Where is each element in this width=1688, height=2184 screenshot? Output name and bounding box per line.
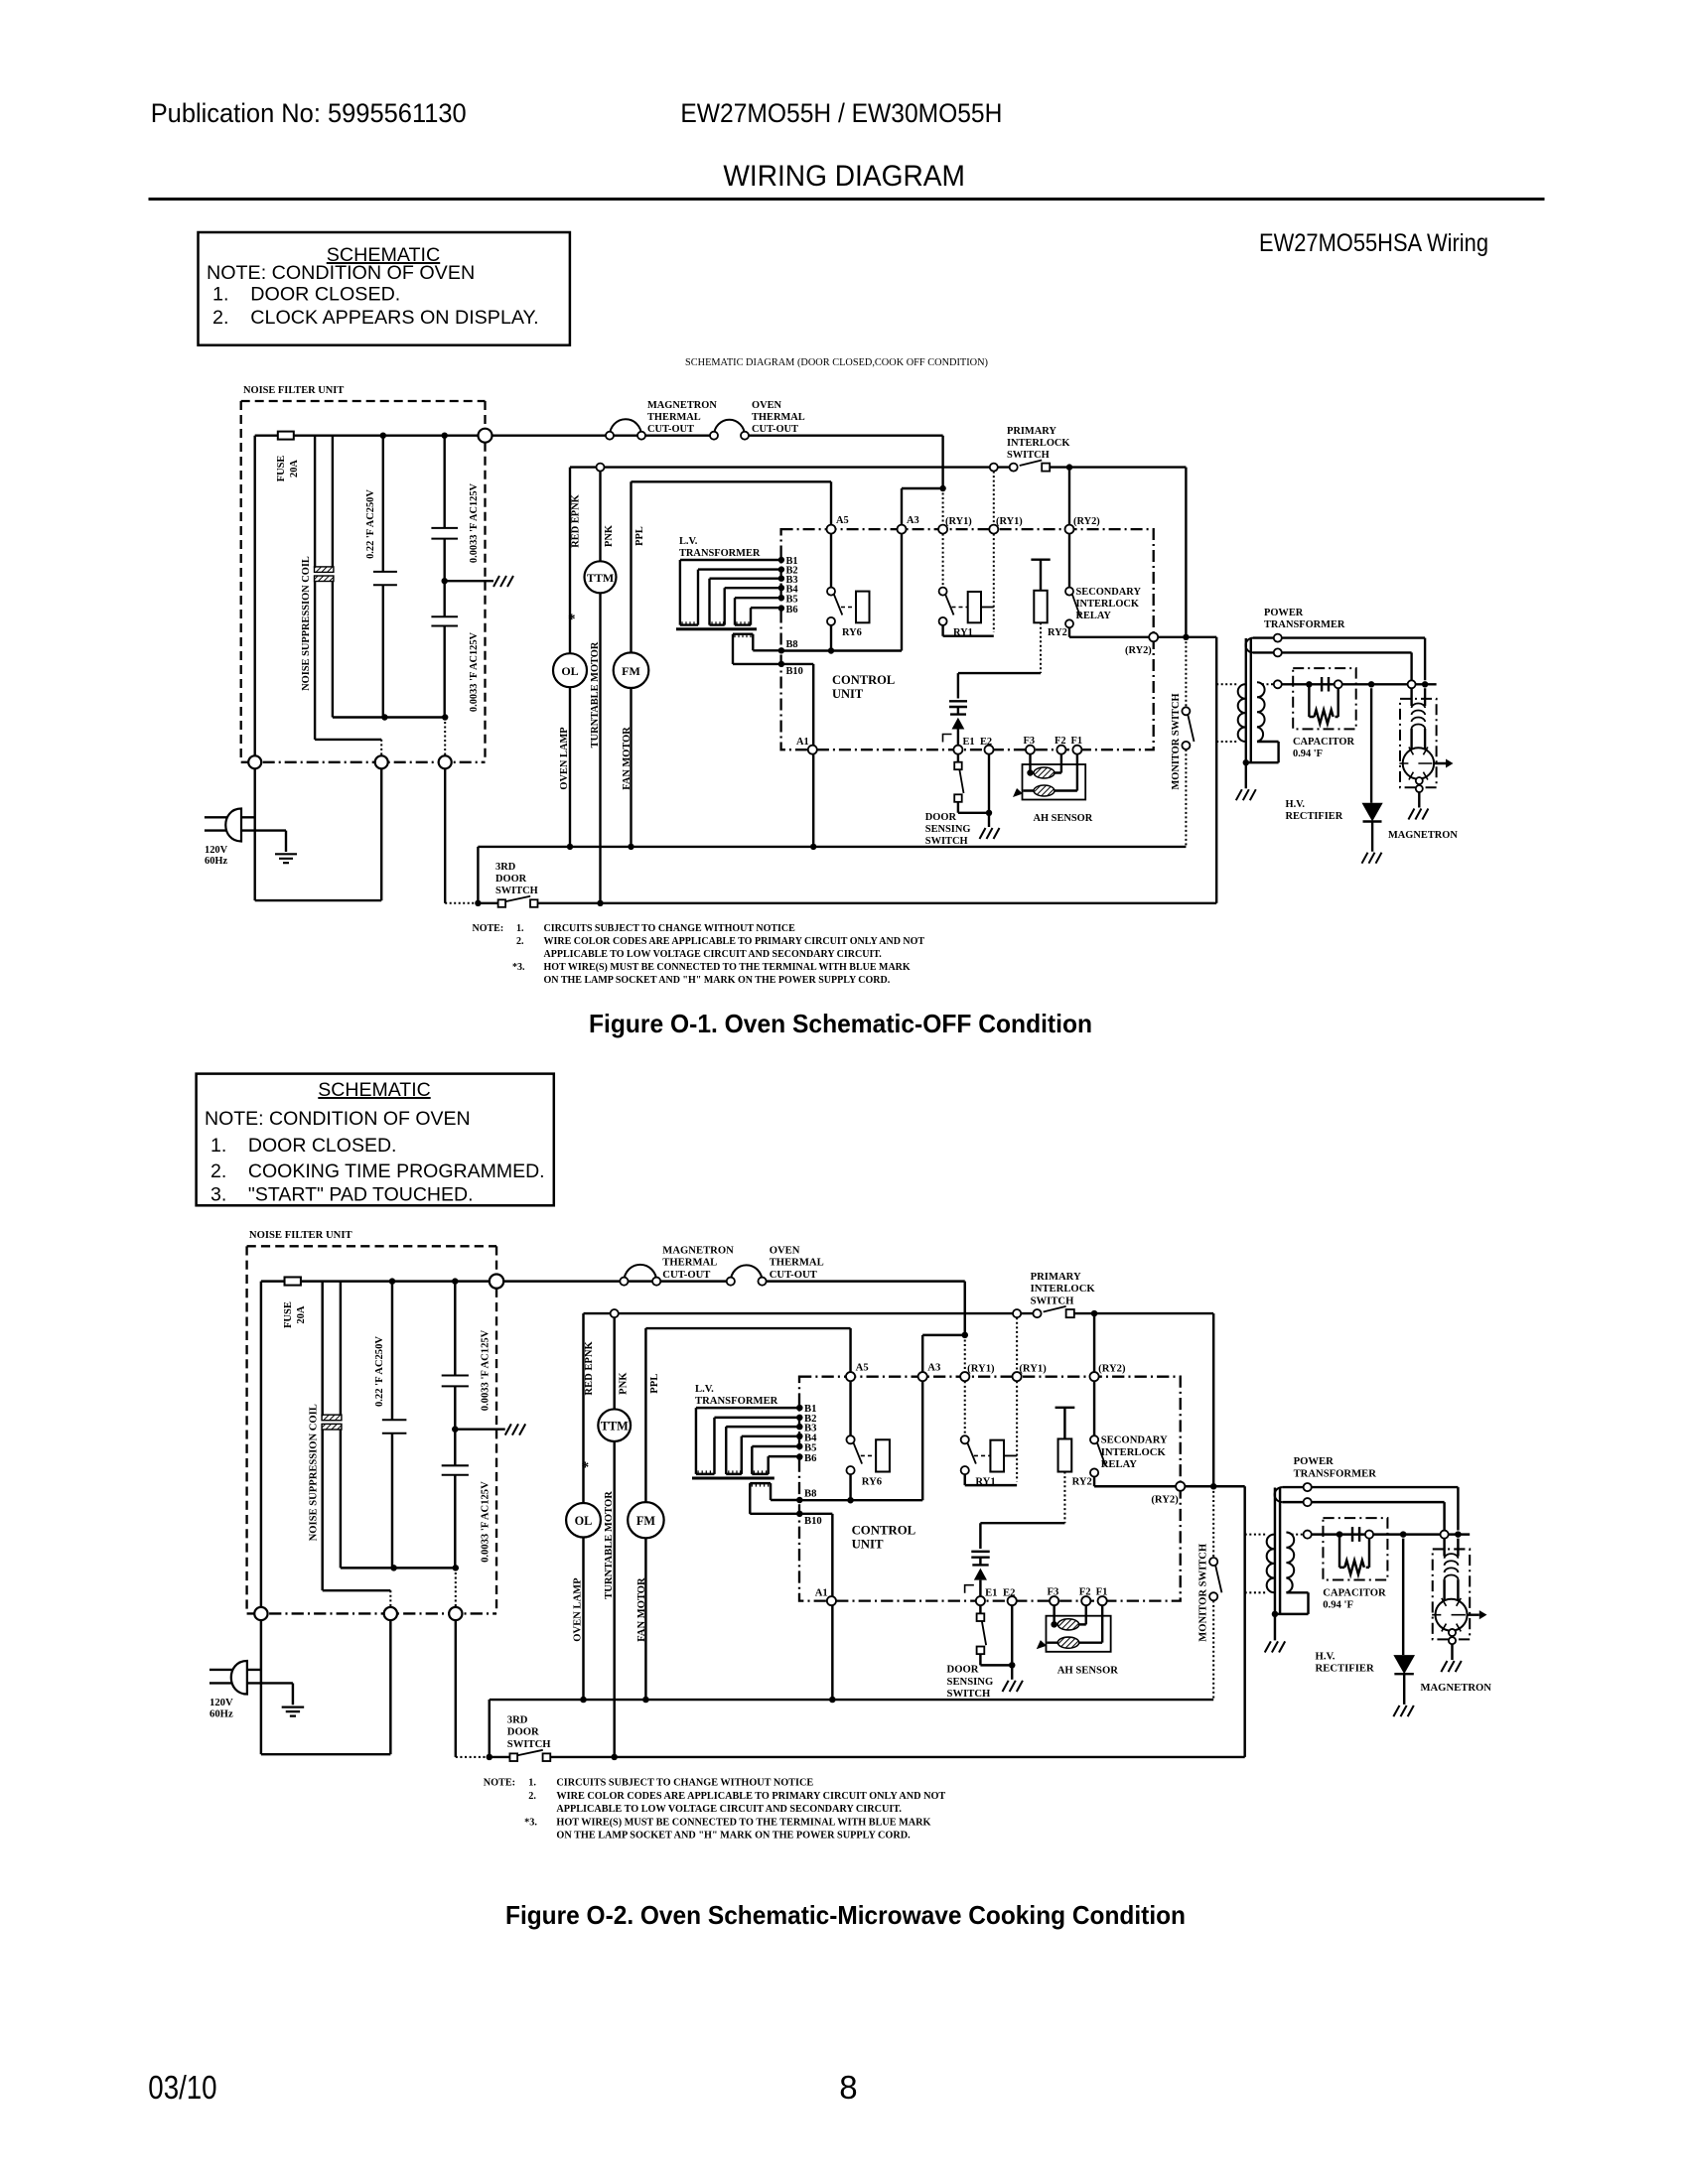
svg-text:Publication No: 5995561130: Publication No: 5995561130 [151, 98, 467, 128]
svg-text:2. COOKING TIME PROGRAMMED.: 2. COOKING TIME PROGRAMMED. [211, 1160, 545, 1182]
svg-text:SCHEMATIC: SCHEMATIC [318, 1079, 430, 1101]
svg-text:03/10: 03/10 [148, 2069, 216, 2106]
svg-text:1. DOOR CLOSED.: 1. DOOR CLOSED. [211, 1135, 396, 1157]
svg-text:3. "START" PAD TOUCHED.: 3. "START" PAD TOUCHED. [211, 1184, 474, 1206]
svg-text:SCHEMATIC DIAGRAM (DOOR CLOSED: SCHEMATIC DIAGRAM (DOOR CLOSED,COOK OFF … [685, 357, 988, 368]
svg-text:Figure O-2. Oven Schematic-Mic: Figure O-2. Oven Schematic-Microwave Coo… [505, 1900, 1186, 1930]
svg-text:WIRING DIAGRAM: WIRING DIAGRAM [723, 160, 965, 193]
svg-text:2. CLOCK APPEARS ON DISPLAY: 2. CLOCK APPEARS ON DISPLAY. [212, 307, 539, 329]
svg-text:EW27MO55H / EW30MO55H: EW27MO55H / EW30MO55H [680, 98, 1002, 128]
svg-text:EW27MO55HSA Wiring: EW27MO55HSA Wiring [1259, 229, 1488, 257]
svg-text:1. DOOR CLOSED.: 1. DOOR CLOSED. [212, 284, 400, 306]
svg-text:NOTE: CONDITION OF OVEN: NOTE: CONDITION OF OVEN [205, 1108, 471, 1130]
svg-text:8: 8 [839, 2069, 857, 2106]
svg-text:NOTE: CONDITION OF OVEN: NOTE: CONDITION OF OVEN [207, 262, 475, 284]
svg-text:Figure O-1. Oven Schematic-OFF: Figure O-1. Oven Schematic-OFF Condition [589, 1009, 1092, 1038]
